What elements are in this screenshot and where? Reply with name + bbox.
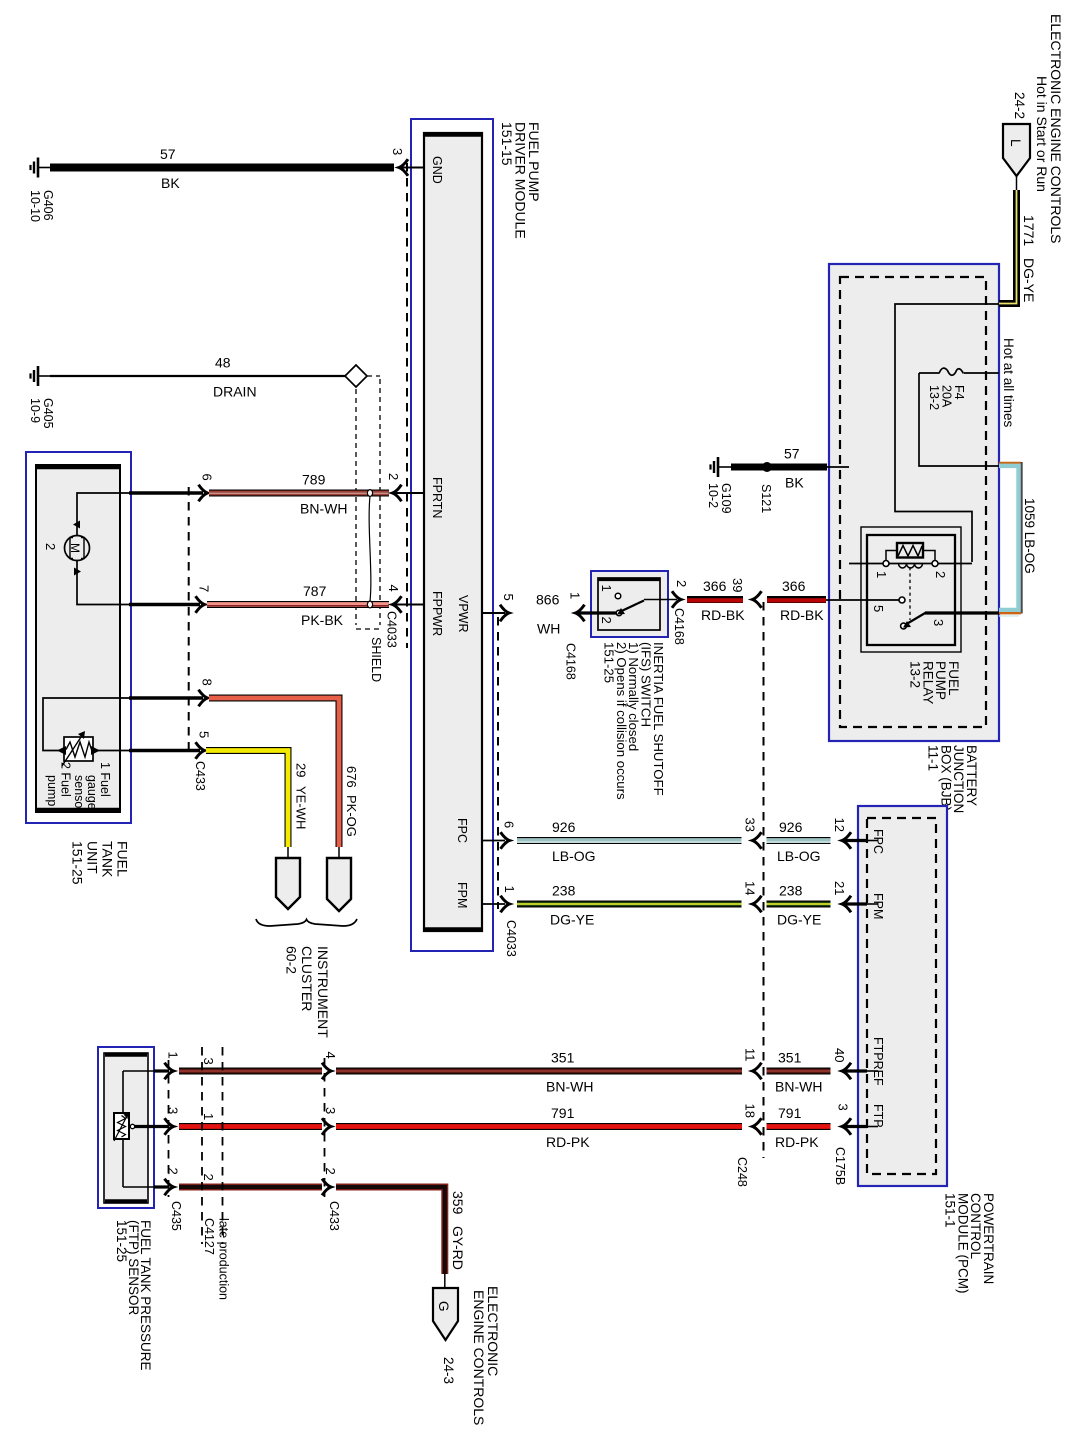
svg-text:7: 7 bbox=[197, 585, 212, 592]
wire 351 BN-WH seg2 bbox=[336, 1068, 742, 1075]
wire 787 PK-BK bbox=[207, 605, 389, 606]
fuel pump driver module inner box bbox=[424, 133, 482, 931]
svg-text:12: 12 bbox=[832, 818, 847, 832]
svg-text:6: 6 bbox=[502, 821, 517, 828]
wire stub PCM FTP bbox=[845, 1125, 867, 1128]
wire 29 YE-WH bbox=[206, 751, 288, 848]
arrow PCM pin 12 bbox=[842, 832, 851, 849]
svg-text:1771: 1771 bbox=[1021, 215, 1037, 246]
connector C4127 dashed right bbox=[222, 1047, 224, 1244]
svg-text:1 Fuel: 1 Fuel bbox=[98, 762, 112, 797]
arrow at FPDM pin 3 bbox=[399, 159, 408, 176]
wire FTP pin1 stub bbox=[154, 1069, 169, 1072]
svg-text:C4168: C4168 bbox=[672, 608, 686, 645]
svg-text:C4168: C4168 bbox=[564, 643, 578, 680]
svg-text:RD-BK: RD-BK bbox=[780, 607, 824, 623]
IFS contact 2 pivot bbox=[616, 610, 622, 616]
svg-text:2: 2 bbox=[201, 1174, 216, 1181]
arrow PCM pin 21 bbox=[842, 896, 851, 913]
svg-text:C4127: C4127 bbox=[202, 1218, 216, 1255]
svg-text:5: 5 bbox=[871, 605, 886, 612]
wire stub FPC bbox=[482, 840, 505, 842]
svg-text:789: 789 bbox=[302, 472, 326, 488]
svg-text:sensor: sensor bbox=[72, 775, 86, 813]
svg-text:2: 2 bbox=[43, 543, 58, 550]
svg-text:WH: WH bbox=[537, 621, 560, 637]
connector G pentagon bbox=[433, 1288, 458, 1340]
svg-text:8: 8 bbox=[200, 679, 215, 686]
PCM inner dashed border bbox=[867, 818, 936, 1174]
arrow FTP pin 3 bbox=[165, 1118, 174, 1135]
FTP row2 internal bbox=[123, 1186, 154, 1188]
svg-text:FTPREF: FTPREF bbox=[871, 1037, 885, 1086]
IFS switch arm bbox=[621, 601, 645, 612]
connector C4033 dashed line left bbox=[406, 163, 408, 648]
wire 366 RD-BK left bbox=[687, 596, 743, 604]
arrow FPDM pin 5 bbox=[500, 605, 509, 622]
wire FTP inside PCM bbox=[867, 1126, 878, 1128]
arrow C248 791 bbox=[753, 1118, 762, 1135]
shield ring on wire 787 bbox=[367, 601, 372, 608]
sensor diagonal arrow bbox=[62, 734, 83, 766]
svg-text:40: 40 bbox=[832, 1048, 847, 1062]
svg-text:2: 2 bbox=[933, 571, 948, 578]
svg-text:late production: late production bbox=[217, 1218, 231, 1300]
svg-text:PK-BK: PK-BK bbox=[301, 612, 344, 628]
sensor arrow right bbox=[91, 746, 100, 755]
svg-text:11: 11 bbox=[743, 1048, 758, 1062]
instrument cluster connector pentagon A bbox=[276, 858, 300, 909]
svg-text:57: 57 bbox=[784, 446, 800, 462]
motor bracket right bbox=[81, 538, 84, 559]
svg-text:ENGINE CONTROLS: ENGINE CONTROLS bbox=[471, 1290, 487, 1425]
wire 926 LB-OG left bbox=[517, 841, 742, 843]
wire 48 DRAIN bbox=[50, 375, 346, 377]
arrow C433 pin 2 bbox=[322, 1179, 331, 1196]
connector C435 dashed line bbox=[168, 1060, 170, 1197]
svg-text:366: 366 bbox=[703, 578, 727, 594]
arrow FTP pin 1 bbox=[165, 1063, 174, 1080]
wire stub PCM FPM bbox=[845, 902, 867, 905]
FTP sensor zigzag bbox=[118, 1116, 126, 1138]
arrow tank pin 5 bbox=[196, 742, 205, 759]
arrow tank pin 8 bbox=[199, 690, 208, 707]
wire 791 RD-PK seg3 bbox=[767, 1123, 831, 1130]
arrow FPDM pin 6 FPC bbox=[501, 832, 510, 849]
svg-text:2: 2 bbox=[386, 473, 401, 480]
svg-text:FPC: FPC bbox=[455, 818, 469, 843]
wire FPM inside PCM bbox=[867, 903, 878, 905]
svg-text:14: 14 bbox=[743, 881, 758, 895]
motor wire to pin 7 bbox=[77, 561, 129, 605]
svg-text:18: 18 bbox=[743, 1104, 758, 1118]
ground G405 bbox=[31, 366, 53, 386]
wire stub to FPPWR bbox=[395, 604, 424, 606]
wire 926 LB-OG right bbox=[767, 841, 831, 843]
svg-text:LB-OG: LB-OG bbox=[777, 848, 821, 864]
tank inner box thick bottom bbox=[37, 808, 119, 811]
svg-text:39: 39 bbox=[730, 578, 745, 592]
svg-text:RD-BK: RD-BK bbox=[701, 607, 745, 623]
powertrain control module box bbox=[858, 806, 947, 1186]
motor arrow top bbox=[73, 521, 80, 529]
svg-text:GND: GND bbox=[430, 156, 444, 184]
svg-text:VPWR: VPWR bbox=[456, 595, 470, 633]
lead to cluster pin b bbox=[338, 847, 340, 859]
FTP row3 wire bbox=[135, 1125, 170, 1128]
tank inner box thick top bbox=[37, 466, 119, 469]
relay pin 2 terminal bbox=[932, 561, 938, 567]
wire path 1771 inside BJB bbox=[895, 304, 999, 562]
connector C433 dashed line bbox=[188, 487, 190, 757]
shield dashed line left bbox=[355, 389, 357, 625]
fuel tank unit inner box bbox=[36, 465, 120, 812]
wire 57 BK at BJB bbox=[731, 464, 827, 471]
instrument cluster connector pentagon B bbox=[327, 858, 351, 911]
wire 57 BK thick bbox=[50, 164, 394, 172]
svg-text:RD-PK: RD-PK bbox=[775, 1134, 819, 1150]
svg-text:5: 5 bbox=[197, 731, 212, 738]
svg-text:791: 791 bbox=[778, 1105, 802, 1121]
wire 791 RD-PK seg2 bbox=[336, 1123, 742, 1130]
inertia fuel shutoff switch inner box bbox=[598, 578, 660, 630]
svg-text:238: 238 bbox=[779, 883, 803, 899]
FTP sensor diagonal arrow bbox=[114, 1116, 127, 1141]
svg-text:FPC: FPC bbox=[871, 829, 885, 854]
wire 791 RD-PK seg1 bbox=[179, 1123, 322, 1130]
connector C248 dashed line bbox=[763, 602, 765, 1158]
svg-text:1: 1 bbox=[166, 1052, 181, 1059]
wire 1059 LB-OG orange top edge bbox=[999, 462, 1021, 464]
svg-text:1: 1 bbox=[599, 585, 614, 592]
svg-text:C4033: C4033 bbox=[385, 611, 399, 648]
svg-text:RD-PK: RD-PK bbox=[546, 1134, 590, 1150]
svg-text:BN-WH: BN-WH bbox=[775, 1079, 822, 1095]
lead to cluster pin a bbox=[287, 847, 289, 859]
svg-text:676: 676 bbox=[344, 766, 359, 788]
wire tank pin6 stub bbox=[129, 491, 203, 494]
svg-text:866: 866 bbox=[536, 592, 560, 608]
svg-text:FPM: FPM bbox=[455, 882, 469, 908]
connector L pentagon bbox=[1003, 124, 1030, 176]
svg-text:366: 366 bbox=[782, 578, 806, 594]
sensor wire to pin 8 bbox=[43, 698, 129, 751]
svg-text:BN-WH: BN-WH bbox=[300, 501, 347, 517]
relay coil lead left bbox=[886, 551, 897, 561]
svg-text:3: 3 bbox=[201, 1058, 216, 1065]
svg-text:FPPWR: FPPWR bbox=[430, 591, 444, 636]
wire stub FPM bbox=[482, 903, 505, 905]
svg-text:787: 787 bbox=[303, 583, 327, 599]
relay coil box bbox=[897, 543, 923, 558]
svg-text:791: 791 bbox=[551, 1105, 575, 1121]
svg-text:S121: S121 bbox=[759, 484, 773, 513]
shield dashed bottom bbox=[356, 628, 380, 630]
svg-text:BN-WH: BN-WH bbox=[546, 1079, 593, 1095]
FTP internal vertical bbox=[122, 1071, 124, 1187]
module inner thick top bbox=[425, 133, 481, 137]
wire FPC inside PCM bbox=[867, 840, 878, 842]
svg-text:3: 3 bbox=[390, 148, 405, 155]
arrow FPDM pin 1 FPM bbox=[501, 896, 510, 913]
shield dashed corner bbox=[367, 375, 380, 377]
fuel tank unit outer box bbox=[26, 452, 131, 823]
wire 789 BN-WH bbox=[209, 490, 389, 497]
arrow IFS pin 1 side bbox=[576, 605, 585, 622]
svg-text:DG-YE: DG-YE bbox=[550, 912, 594, 928]
curly brace bbox=[256, 919, 357, 926]
svg-text:BK: BK bbox=[785, 475, 804, 491]
svg-text:Hot at all times: Hot at all times bbox=[1001, 338, 1016, 428]
svg-text:LB-OG: LB-OG bbox=[552, 848, 596, 864]
svg-text:33: 33 bbox=[743, 818, 758, 832]
svg-text:1: 1 bbox=[201, 1113, 216, 1120]
fuse F4 element bbox=[939, 368, 964, 375]
FTP inner thick bottom bbox=[105, 1199, 147, 1202]
svg-text:3: 3 bbox=[836, 1104, 851, 1111]
splice S121 bbox=[762, 462, 772, 472]
wire 238 DG-YE left bbox=[517, 901, 742, 908]
svg-text:3: 3 bbox=[931, 619, 946, 626]
wire 351 BN-WH seg3 bbox=[767, 1068, 831, 1075]
relay pin 5 contact bbox=[899, 597, 905, 603]
svg-text:DG-YE: DG-YE bbox=[777, 912, 821, 928]
svg-text:1: 1 bbox=[568, 592, 583, 599]
svg-text:C435: C435 bbox=[169, 1201, 183, 1231]
svg-text:C4033: C4033 bbox=[504, 920, 518, 957]
inertia fuel shutoff switch outer box bbox=[591, 571, 668, 637]
svg-text:2: 2 bbox=[599, 617, 614, 624]
wire 238 DG-YE right bbox=[767, 901, 831, 908]
sensor zigzag bbox=[66, 742, 92, 757]
arrow IFS pin 2 side bbox=[672, 591, 681, 608]
shield ring on wire 789 bbox=[367, 490, 372, 497]
wire 1771 DG-YE bbox=[999, 190, 1017, 304]
svg-text:351: 351 bbox=[551, 1050, 575, 1066]
wire stub to FPRTN bbox=[395, 492, 424, 494]
shield diamond connector bbox=[345, 365, 367, 387]
ground G109 bbox=[711, 457, 733, 477]
lead to G connector bbox=[444, 1274, 446, 1289]
wire tank pin7 stub bbox=[129, 603, 200, 606]
arrow FPDM pin 2 bbox=[393, 485, 402, 502]
arrow C433 pin 3 bbox=[322, 1118, 331, 1135]
wire stub VPWR bbox=[482, 612, 505, 614]
motor bracket left bbox=[70, 538, 73, 559]
relay link dashed bbox=[909, 567, 911, 620]
arrow C248 351 bbox=[753, 1063, 762, 1080]
ground G406 bbox=[31, 158, 53, 178]
IFS inner box thick top bbox=[598, 578, 660, 581]
svg-text:5: 5 bbox=[501, 594, 516, 601]
IFS contact 1 bbox=[615, 593, 621, 599]
svg-text:PK-OG: PK-OG bbox=[344, 795, 359, 837]
svg-text:1: 1 bbox=[502, 886, 517, 893]
motor arrow bottom bbox=[74, 568, 81, 576]
svg-text:24-3: 24-3 bbox=[441, 1357, 456, 1384]
arrow tank pin 6 bbox=[199, 485, 208, 502]
fuse line left bbox=[919, 372, 939, 374]
svg-text:6: 6 bbox=[200, 474, 215, 481]
shield dashed line right bbox=[379, 379, 381, 625]
module inner thick bottom bbox=[425, 927, 481, 931]
wire 1059 LB-OG orange bottom edge bbox=[999, 612, 1021, 614]
svg-text:359: 359 bbox=[450, 1191, 466, 1215]
svg-text:2: 2 bbox=[674, 580, 689, 587]
wire 366 RD-BK right bbox=[767, 596, 826, 604]
svg-text:238: 238 bbox=[552, 883, 576, 899]
wire stub PCM FTPREF bbox=[845, 1069, 867, 1072]
svg-text:926: 926 bbox=[552, 819, 576, 835]
wire 1059 LB-OG teal body bbox=[999, 466, 1019, 610]
arrow tank pin 7 bbox=[196, 596, 205, 613]
svg-text:C433: C433 bbox=[327, 1201, 341, 1231]
relay pin 3 arm bbox=[904, 613, 926, 626]
IFS exit wire bbox=[644, 599, 677, 601]
wire 676 PK-OG bbox=[209, 698, 339, 847]
svg-text:351: 351 bbox=[778, 1050, 802, 1066]
svg-text:C433: C433 bbox=[193, 761, 207, 791]
wire 359 GY-RD seg2 bbox=[336, 1187, 445, 1274]
fuel pump relay outer rect bbox=[861, 527, 961, 652]
FTP sensor terminal circle bbox=[130, 1124, 134, 1128]
svg-text:GY-RD: GY-RD bbox=[450, 1226, 466, 1270]
battery junction box bbox=[829, 264, 999, 741]
wire stub PCM FPC bbox=[845, 839, 867, 842]
connector C4127 dashed left bbox=[201, 1047, 203, 1244]
fuel pump motor M1 circle bbox=[65, 536, 90, 561]
arrow PCM pin 3 FTP bbox=[842, 1118, 851, 1135]
arrow C248 238 bbox=[753, 896, 762, 913]
motor wire to pin 6 bbox=[77, 493, 129, 536]
arrow C248 926 bbox=[753, 832, 762, 849]
wire 351 BN-WH seg1 bbox=[179, 1068, 322, 1075]
svg-text:FPRTN: FPRTN bbox=[430, 477, 444, 518]
svg-text:gauge: gauge bbox=[85, 775, 99, 810]
wire stub to GND pin bbox=[402, 167, 424, 169]
svg-text:4: 4 bbox=[386, 585, 401, 592]
svg-text:1059 LB-OG: 1059 LB-OG bbox=[1022, 498, 1037, 574]
relay coil humps bbox=[899, 564, 923, 569]
svg-text:FPM: FPM bbox=[871, 893, 885, 919]
shield conductor curve bbox=[369, 496, 371, 601]
svg-text:C175B: C175B bbox=[833, 1147, 847, 1185]
wire 359 GY-RD seg1 bbox=[179, 1184, 322, 1191]
relay pin 1 terminal bbox=[883, 561, 889, 567]
arrow C433 pin 4 bbox=[322, 1063, 331, 1080]
connector C4033 dashed line right bbox=[497, 617, 499, 909]
wire 1059 LB-OG dark outer edge bbox=[1021, 462, 1023, 614]
svg-text:4: 4 bbox=[323, 1052, 338, 1059]
svg-text:L: L bbox=[1008, 139, 1023, 147]
svg-text:DG-YE: DG-YE bbox=[1021, 258, 1037, 302]
svg-text:29: 29 bbox=[294, 763, 309, 777]
arrow FTP pin 2 bbox=[165, 1179, 174, 1196]
svg-text:FTP: FTP bbox=[871, 1104, 885, 1128]
sensor arrow left bbox=[57, 746, 66, 755]
svg-text:BK: BK bbox=[161, 175, 180, 191]
connector C433 dashed line bottom bbox=[324, 1058, 326, 1197]
wire 1059 LB-OG pale bottom bbox=[999, 615, 1019, 617]
BJB inner dashed border bbox=[840, 277, 986, 727]
svg-text:G40610-10: G40610-10 bbox=[28, 190, 55, 222]
svg-text:2 Fuel: 2 Fuel bbox=[59, 762, 73, 797]
wire tank pin5 stub bbox=[129, 749, 200, 752]
fuel tank pressure sensor inner box bbox=[104, 1053, 148, 1203]
sensor wire to pin 5 bbox=[93, 750, 129, 752]
arrow at C248 junction bbox=[753, 591, 762, 608]
fuse F4 box bbox=[919, 373, 999, 466]
svg-text:C248: C248 bbox=[735, 1157, 749, 1187]
svg-text:48: 48 bbox=[215, 355, 231, 371]
FTP inner thick top bbox=[105, 1053, 147, 1056]
fuel pump driver module outer box bbox=[411, 119, 493, 951]
wire 57 stub inside BJB bbox=[827, 466, 849, 468]
FTP row1 internal bbox=[123, 1070, 154, 1072]
relay coil zigzag bbox=[898, 546, 922, 557]
arrow FPDM pin 4 bbox=[393, 596, 402, 613]
relay coil lead right bbox=[923, 551, 935, 561]
svg-text:G: G bbox=[436, 1301, 451, 1312]
svg-text:DRAIN: DRAIN bbox=[213, 384, 257, 400]
arrow PCM pin 40 bbox=[842, 1063, 851, 1080]
wire FTPREF inside PCM bbox=[867, 1070, 878, 1072]
fuel gauge sensor box bbox=[64, 737, 93, 761]
svg-text:SHIELD: SHIELD bbox=[369, 637, 383, 682]
wire 366 thin inside BJB bbox=[826, 599, 899, 601]
lead from L connector bbox=[1016, 176, 1018, 191]
svg-text:57: 57 bbox=[160, 146, 176, 162]
FTP sensor element box bbox=[114, 1113, 129, 1139]
svg-text:Hot in Start or Run: Hot in Start or Run bbox=[1034, 76, 1050, 192]
wire relay pin3 to 1059 bbox=[925, 611, 999, 614]
fuel tank pressure sensor outer box bbox=[98, 1047, 154, 1208]
wire FTP pin2 stub bbox=[154, 1185, 169, 1188]
fuel pump relay box bbox=[867, 535, 955, 645]
relay coil row line bbox=[849, 563, 972, 565]
svg-text:pump: pump bbox=[45, 775, 59, 806]
svg-text:926: 926 bbox=[779, 819, 803, 835]
svg-text:1: 1 bbox=[874, 571, 889, 578]
svg-text:24-2: 24-2 bbox=[1012, 92, 1027, 119]
wire 866 WH into IFS bbox=[578, 611, 618, 614]
svg-text:21: 21 bbox=[832, 881, 847, 895]
svg-text:YE-WH: YE-WH bbox=[294, 786, 309, 829]
wire tank pin8 stub bbox=[129, 696, 203, 699]
